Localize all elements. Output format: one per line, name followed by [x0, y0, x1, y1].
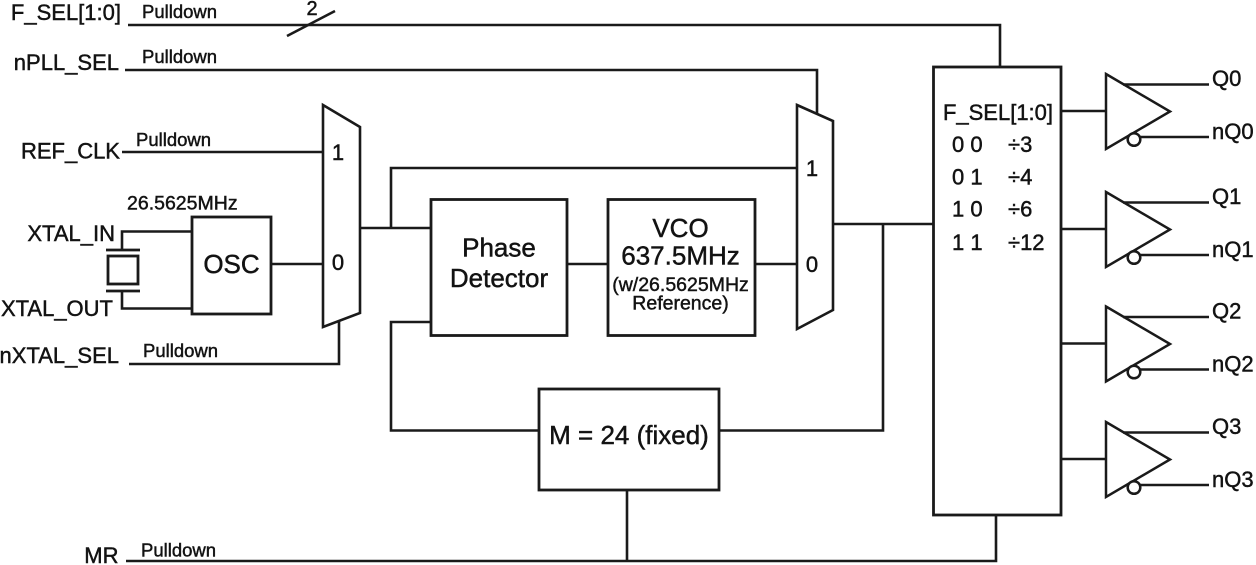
svg-text:F_SEL[1:0]: F_SEL[1:0]: [943, 100, 1053, 125]
mux M2 (PLL bypass select): [797, 105, 833, 329]
svg-text:Q1: Q1: [1212, 184, 1241, 209]
svg-text:Pulldown: Pulldown: [141, 540, 216, 561]
svg-text:Phase: Phase: [462, 233, 536, 263]
wire nQ1 output: [1140, 254, 1209, 257]
svg-text:nQ2: nQ2: [1212, 352, 1254, 377]
inversion bubble nQ0: [1128, 133, 1141, 146]
crystal X1 bottom plate: [106, 290, 140, 293]
VCO block: [608, 200, 755, 336]
svg-text:REF_CLK: REF_CLK: [21, 139, 120, 164]
wire VCO output to mux M2 input 0: [755, 263, 797, 266]
svg-text:26.5625MHz: 26.5625MHz: [127, 193, 238, 215]
svg-text:1: 1: [806, 156, 818, 181]
wire mux M1 output to phase detector: [360, 227, 431, 230]
svg-text:÷6: ÷6: [1008, 197, 1032, 222]
wire XTAL_IN to OSC and crystal: [122, 232, 192, 251]
svg-text:÷12: ÷12: [1008, 230, 1045, 255]
output buffer Q0 group: [1061, 66, 1254, 149]
svg-text:0 1: 0 1: [952, 165, 983, 190]
oscillator OSC block: [192, 217, 271, 314]
svg-text:XTAL_IN: XTAL_IN: [27, 221, 115, 246]
svg-text:1: 1: [332, 140, 344, 165]
svg-text:XTAL_OUT: XTAL_OUT: [1, 296, 113, 321]
bus width slash: [287, 11, 335, 36]
phase detector block: [431, 200, 567, 336]
svg-text:nQ0: nQ0: [1212, 119, 1254, 144]
svg-text:0 0: 0 0: [952, 132, 983, 157]
wire nQ0 output: [1140, 136, 1209, 139]
svg-text:1 0: 1 0: [952, 197, 983, 222]
inversion bubble nQ2: [1128, 366, 1141, 379]
wire REF_CLK to mux M1 input 1: [122, 151, 323, 154]
mux M1 (crystal/reference select): [323, 105, 360, 327]
svg-text:0: 0: [332, 250, 344, 275]
buffer U4 triangle: [1106, 307, 1170, 382]
svg-text:Pulldown: Pulldown: [142, 1, 217, 22]
wire nPLL_SEL to mux M2 select: [125, 70, 817, 114]
wire Q1 output: [1123, 201, 1209, 204]
wire MR to divider block: [126, 515, 996, 561]
wire feedback tap down to M divider: [719, 224, 883, 431]
svg-text:1 1: 1 1: [952, 230, 983, 255]
svg-text:Reference): Reference): [632, 293, 728, 315]
wire mux M2 output to divider block: [833, 223, 934, 226]
wire divider to buffer Q1: [1061, 228, 1106, 231]
wire Q3 output: [1123, 431, 1209, 434]
wire M divider output to phase detector feedback input: [391, 322, 539, 431]
wire Q0 output: [1123, 83, 1209, 86]
buffer U5 triangle: [1106, 422, 1170, 497]
output buffer Q2 group: [1061, 299, 1254, 382]
svg-text:nQ3: nQ3: [1212, 467, 1254, 492]
crystal X1 top plate: [106, 249, 140, 252]
wire F_SEL bus to divider block: [128, 25, 1000, 67]
svg-text:nQ1: nQ1: [1212, 237, 1254, 262]
svg-text:F_SEL[1:0]: F_SEL[1:0]: [11, 0, 121, 25]
svg-text:M = 24 (fixed): M = 24 (fixed): [549, 420, 709, 450]
inversion bubble nQ3: [1128, 481, 1141, 494]
svg-text:637.5MHz: 637.5MHz: [621, 241, 740, 271]
wire divider to buffer Q0: [1061, 110, 1106, 113]
wire divider to buffer Q3: [1061, 458, 1106, 461]
svg-text:Q3: Q3: [1212, 414, 1241, 439]
output buffer Q1 group: [1061, 184, 1254, 267]
svg-text:MR: MR: [84, 543, 118, 565]
svg-text:2: 2: [306, 0, 317, 20]
svg-text:÷4: ÷4: [1008, 165, 1032, 190]
svg-text:nPLL_SEL: nPLL_SEL: [14, 50, 119, 75]
wire XTAL_OUT from crystal to OSC: [122, 291, 192, 309]
feedback divider M block: [539, 389, 719, 490]
svg-text:÷3: ÷3: [1008, 132, 1032, 157]
output divider block with F_SEL table: [934, 67, 1062, 515]
svg-text:Detector: Detector: [450, 263, 549, 293]
wire nXTAL_SEL to mux M1 select: [129, 321, 339, 364]
svg-text:0: 0: [806, 252, 818, 277]
svg-text:VCO: VCO: [652, 213, 708, 243]
svg-text:Q0: Q0: [1212, 66, 1241, 91]
wire nQ3 output: [1140, 484, 1209, 487]
wire divider to buffer Q2: [1061, 342, 1106, 345]
wire phase detector to VCO: [567, 263, 608, 266]
svg-text:Pulldown: Pulldown: [143, 340, 218, 361]
wire nQ2 output: [1140, 368, 1209, 371]
buffer U3 triangle: [1106, 192, 1170, 267]
crystal X1 body: [108, 256, 138, 284]
inversion bubble nQ1: [1128, 251, 1141, 264]
wire Q2 output: [1123, 316, 1209, 319]
output buffer Q3 group: [1061, 414, 1254, 497]
svg-text:Pulldown: Pulldown: [142, 46, 217, 67]
wire reference branch to mux M2 input 1: [391, 168, 797, 228]
wire OSC output to mux M1 input 0: [271, 263, 323, 266]
svg-text:Q2: Q2: [1212, 299, 1241, 324]
svg-text:OSC: OSC: [203, 249, 259, 279]
buffer U2 triangle: [1106, 74, 1170, 149]
svg-text:Pulldown: Pulldown: [136, 129, 211, 150]
wire M divider bottom to MR line: [626, 490, 629, 561]
svg-text:nXTAL_SEL: nXTAL_SEL: [0, 343, 119, 368]
